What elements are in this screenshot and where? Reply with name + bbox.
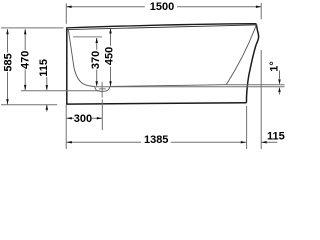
tub inner floor bbox=[110, 85, 227, 87]
svg-text:1385: 1385 bbox=[144, 134, 168, 146]
dimension 1 degree bbox=[279, 71, 281, 80]
svg-text:115: 115 bbox=[38, 59, 50, 77]
extension line drain center bottom bbox=[101, 100, 103, 131]
dimension 470 bbox=[24, 29, 26, 90]
extension line 470 bottom bbox=[21, 90, 100, 92]
extension line base right bbox=[246, 106, 248, 149]
tub inner wall profile left bbox=[68, 30, 94, 87]
extension line rim top left bbox=[1, 27, 64, 29]
dimension 300 bbox=[66, 117, 102, 119]
extension line floor left bbox=[1, 104, 57, 106]
drain recess bbox=[95, 87, 110, 92]
dimension 115 left bbox=[46, 77, 48, 90]
dimension 1385 bbox=[66, 141, 246, 143]
tub rim inner edge bbox=[68, 25, 257, 30]
waterline bbox=[73, 36, 102, 38]
tub bottom bbox=[66, 103, 246, 104]
tub outer left wall bbox=[66, 28, 68, 103]
extension line left wall bottom bbox=[65, 105, 67, 150]
extension line rim right overhang bbox=[260, 50, 262, 149]
drain horizontal tick bbox=[99, 88, 106, 90]
extension line floor slope lower bbox=[95, 86, 285, 88]
svg-text:300: 300 bbox=[74, 113, 92, 125]
tub outer right wall bbox=[246, 24, 258, 102]
dimension 585 bbox=[7, 29, 9, 104]
svg-text:1°: 1° bbox=[268, 61, 280, 72]
svg-text:450: 450 bbox=[104, 47, 116, 65]
dimension 370 bbox=[96, 38, 98, 86]
svg-text:1500: 1500 bbox=[150, 1, 174, 13]
dimension 115 bottom right bbox=[262, 141, 278, 143]
svg-text:585: 585 bbox=[2, 53, 14, 71]
extension line floor slope upper bbox=[226, 84, 284, 86]
dimension 450 bbox=[110, 29, 112, 86]
svg-text:370: 370 bbox=[90, 51, 102, 69]
svg-text:470: 470 bbox=[20, 51, 32, 69]
drain vertical centerline bbox=[101, 82, 103, 98]
dimension 1500 bbox=[66, 3, 261, 24]
tub rim top edge bbox=[66, 24, 256, 28]
backrest slope bbox=[226, 25, 256, 84]
svg-text:115: 115 bbox=[267, 131, 285, 143]
